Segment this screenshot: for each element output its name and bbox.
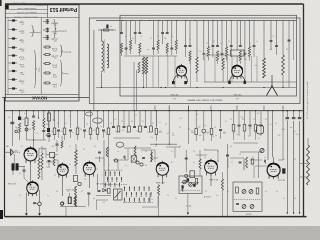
- switch contact 1: [105, 172, 107, 175]
- svg-text:47: 47: [121, 121, 123, 123]
- legend left row 6 symbol: [12, 62, 15, 64]
- legend right row 8 resistor symbol: [45, 82, 49, 84]
- tuner drop 7 tail: [157, 50, 159, 54]
- legend left row 9 symbol: [12, 87, 15, 89]
- svg-text:1n: 1n: [47, 195, 49, 197]
- capacitor C14: [48, 136, 51, 137]
- legend left row 7 lead b: [15, 70, 17, 72]
- tuner long vertical 4: [174, 56, 176, 88]
- tuner drop x276: [276, 21, 278, 46]
- antenna coil secondary L2: [107, 44, 109, 68]
- svg-text:PM 1.80: PM 1.80: [171, 95, 180, 97]
- svg-text:4p: 4p: [125, 36, 127, 38]
- legend right row 8 lead: [43, 82, 45, 84]
- tuner lower bus junction 2: [143, 87, 144, 88]
- svg-text:10k: 10k: [188, 129, 191, 131]
- tuner bus node 3: [141, 20, 142, 21]
- svg-text:47: 47: [139, 202, 141, 204]
- left drop 6 lower: [43, 128, 45, 131]
- module b trimmer 3: [242, 205, 246, 209]
- svg-text:a1: a1: [110, 26, 112, 28]
- svg-text:a12: a12: [90, 138, 93, 140]
- center res 3: [139, 126, 142, 132]
- center res 4: [150, 126, 153, 132]
- tuner drop 13: [189, 21, 191, 46]
- tuner resistor left of coil: [138, 62, 140, 73]
- tuner bus node 14: [240, 20, 241, 21]
- tuner drop 11: [175, 21, 177, 41]
- IF drop 6 lower: [211, 135, 213, 142]
- agc rail long: [46, 161, 54, 163]
- svg-text:10k: 10k: [98, 123, 101, 125]
- IF resistor 4: [195, 129, 198, 135]
- tuner drop 21 resistor: [239, 51, 241, 61]
- drop v1: [45, 148, 47, 158]
- tuner lower bus junction 1: [101, 87, 102, 88]
- tuner long resistor R8: [222, 58, 224, 70]
- tuner-to-main connector 5: [236, 106, 238, 111]
- switch contact 14 dot: [129, 190, 130, 191]
- legend right row 7 lead: [43, 72, 45, 74]
- svg-text:25p: 25p: [61, 131, 64, 133]
- right link b: [240, 151, 262, 153]
- tuner drop 20 tail: [230, 47, 232, 57]
- center boost cap 3: [142, 158, 145, 159]
- V6 lower lead: [88, 194, 90, 206]
- svg-text:25: 25: [193, 151, 195, 153]
- tuner resistor R9: [282, 55, 285, 75]
- lamp side lead: [34, 203, 38, 205]
- center circle b: [140, 163, 143, 166]
- Ra top lead: [38, 148, 40, 158]
- center cap 2: [123, 127, 126, 128]
- svg-text:47k: 47k: [29, 129, 32, 131]
- svg-text:mica: mica: [21, 73, 25, 75]
- svg-text:47k: 47k: [198, 127, 201, 129]
- bus junction 6: [48, 110, 49, 111]
- svg-text:25: 25: [265, 191, 267, 193]
- svg-text:50p: 50p: [255, 65, 258, 67]
- sheet left border: [4, 97, 6, 216]
- right resistor 1: [232, 125, 235, 132]
- svg-text:5p: 5p: [115, 131, 117, 133]
- lamp capacitor: [33, 202, 36, 203]
- svg-text:1n: 1n: [72, 132, 74, 134]
- filter capacitor 3: [298, 118, 302, 119]
- tuner drop x271: [270, 21, 272, 41]
- rail k: [142, 206, 158, 208]
- bus junction 15: [103, 110, 104, 111]
- right drop 6 lower: [260, 126, 262, 136]
- legend left row 2 lead: [9, 29, 13, 31]
- center drop 7: [145, 111, 147, 126]
- right capacitor 2: [238, 125, 241, 126]
- svg-text:1n: 1n: [151, 199, 153, 201]
- svg-text:1n: 1n: [125, 165, 127, 167]
- bus junction 27: [233, 110, 234, 111]
- tuner drop 10 capacitor: [170, 48, 173, 49]
- legend left row 8 symbol: [12, 78, 15, 80]
- tuner bus node 2: [132, 20, 133, 21]
- sheet right border: [303, 4, 305, 217]
- svg-text:47: 47: [302, 121, 304, 123]
- tuner-to-main connector 7: [282, 106, 284, 111]
- driver tube V5 (ECH 81): [57, 163, 68, 179]
- svg-text:47nF: 47nF: [18, 63, 23, 65]
- filter line 1 bus node: [287, 110, 288, 111]
- pilot lamp LP1: [38, 202, 42, 206]
- svg-text:25: 25: [302, 191, 304, 193]
- module b trimmer 4: [250, 205, 254, 209]
- svg-text:1n: 1n: [140, 36, 142, 38]
- IF drop 3: [188, 111, 190, 128]
- cluster resistor C: [75, 197, 77, 207]
- legend left row 5 lead b: [15, 55, 17, 57]
- osc transformer bottom lead a: [143, 74, 145, 88]
- tuner drop 16 tail: [212, 47, 214, 57]
- legend left row 8 lead: [9, 79, 13, 81]
- IF drop 5 lower: [203, 133, 205, 141]
- cluster trimmer A: [61, 202, 64, 205]
- svg-text:2,2 M: 2,2 M: [52, 47, 57, 49]
- V9 area cap 2: [265, 160, 266, 164]
- right capacitor 4: [249, 125, 252, 126]
- module a resistor: [195, 179, 197, 185]
- svg-text:50: 50: [179, 127, 181, 129]
- legend right row 4 resistor symbol: [45, 46, 49, 48]
- module b trimmer 1: [242, 190, 246, 194]
- detector rail: [113, 159, 128, 161]
- tuner right capacitor: [288, 40, 291, 41]
- switch contact 14: [128, 187, 130, 190]
- bus junction 23: [188, 110, 189, 111]
- rail e: [166, 146, 180, 148]
- legend right brace top: [54, 19, 57, 38]
- svg-text:5n: 5n: [51, 131, 53, 133]
- left cluster wire b: [136, 70, 138, 111]
- V9 anode feed node: [282, 110, 283, 111]
- mid drop 4: [64, 111, 66, 128]
- IF drop 4 lower: [195, 135, 197, 142]
- mid drop 11: [108, 111, 110, 128]
- tuner drop 15: [207, 21, 209, 47]
- C16 lower: [56, 145, 58, 152]
- terminal mid stem: [187, 194, 189, 213]
- output transformer lead: [19, 166, 25, 168]
- mid drop 6 lower: [77, 135, 79, 141]
- rail h: [250, 159, 262, 161]
- legend right row 5 dot: [50, 54, 51, 55]
- module b trimmer 3 arrow: [242, 205, 245, 208]
- left drop 5 node: [38, 117, 39, 118]
- bus junction 24: [196, 110, 197, 111]
- svg-text:Divers: Divers: [63, 72, 68, 75]
- center cap 1: [112, 127, 115, 128]
- tuner drop 14: [203, 21, 205, 53]
- left drop 3 lower: [26, 126, 28, 141]
- svg-text:10nF: 10nF: [18, 88, 23, 90]
- module a trimmer 1 arrow: [183, 180, 186, 183]
- svg-text:1n: 1n: [258, 138, 260, 140]
- svg-text:50: 50: [131, 121, 133, 123]
- V7-V8 resistor: [199, 159, 201, 169]
- tuner resistor right of V1: [196, 57, 198, 73]
- legend left row 4 symbol: [12, 46, 15, 48]
- V8 right wire: [227, 144, 229, 217]
- center cap 4: [144, 127, 147, 128]
- V7-V8 resistor bottom: [199, 169, 201, 176]
- IF can lead up: [236, 21, 238, 51]
- tuner lower bus junction 7: [263, 87, 264, 88]
- switch contact 21: [135, 192, 137, 195]
- svg-text:MF 455: MF 455: [50, 21, 58, 23]
- resistor R16: [61, 141, 63, 148]
- driver tube V6 (EF 85): [83, 161, 95, 178]
- switch contact 19 dot: [126, 196, 127, 197]
- svg-text:2n: 2n: [189, 39, 191, 41]
- svg-text:5n: 5n: [114, 119, 116, 121]
- switch contact 13: [124, 187, 126, 190]
- dropper link b: [300, 176, 308, 178]
- svg-text:50: 50: [45, 135, 47, 137]
- svg-text:5n: 5n: [24, 113, 26, 115]
- legend left row 5 symbol: [12, 54, 15, 56]
- module a trimmer 1: [183, 180, 187, 184]
- Rb top lead: [41, 146, 43, 153]
- switch contact 27: [133, 198, 135, 201]
- tuner tube V1 (EBF 80): [176, 64, 186, 79]
- tuner V1 socket foot right: [185, 75, 187, 83]
- V7 cathode lead: [161, 175, 163, 184]
- module b trimmer 2: [249, 190, 253, 194]
- antenna coil top lead: [101, 30, 103, 41]
- drop v12: [149, 193, 151, 203]
- mid drop 11 lower: [108, 135, 110, 141]
- svg-text:1n: 1n: [93, 198, 95, 200]
- mid drop 9 lower: [97, 135, 99, 141]
- trimmer below L10: [78, 182, 81, 185]
- legend left row 3 symbol: [12, 37, 15, 39]
- V8 right res top: [221, 172, 223, 179]
- legend left row 7 symbol: [12, 70, 15, 72]
- center boost resistor 1: [106, 147, 108, 157]
- grid link V5: [54, 159, 58, 161]
- right oval component: [257, 125, 264, 134]
- tuner drop 5 tail: [139, 53, 141, 56]
- tuner drop 22 capacitor: [244, 53, 247, 54]
- output transformer core a: [12, 163, 15, 170]
- IF drop 1: [155, 111, 157, 128]
- filter line 2 bus node: [293, 110, 294, 111]
- resistor box R12: [25, 118, 28, 126]
- svg-text:25: 25: [86, 124, 88, 126]
- right trimmer arrow: [260, 149, 264, 153]
- switch contact 8 dot: [121, 181, 122, 182]
- right drop 3 lower: [244, 131, 246, 140]
- svg-text:1n: 1n: [171, 151, 173, 153]
- tuner drop 18 capacitor: [221, 53, 224, 54]
- switch contact 11 dot: [114, 186, 115, 187]
- bus junction 16: [108, 110, 109, 111]
- drop v5: [127, 150, 129, 160]
- switch contact 16 dot: [139, 190, 140, 191]
- IF capacitor 7: [219, 130, 222, 131]
- IF up-cross wire a: [168, 106, 170, 111]
- sheet bottom border / ground bus: [5, 216, 307, 218]
- drop v8: [217, 150, 219, 162]
- mid drop 7: [84, 111, 86, 128]
- V7-V8 trimmer: [185, 174, 188, 177]
- switch contact 10 dot: [110, 186, 111, 187]
- svg-text:2x470: 2x470: [18, 29, 24, 31]
- tuner drop 8 tail: [162, 34, 164, 44]
- V7-V8 resistor top: [199, 150, 201, 159]
- tuner bus node 11: [213, 20, 214, 21]
- grid rail node: [33, 139, 34, 140]
- svg-text:25: 25: [150, 38, 152, 40]
- svg-text:470pF: 470pF: [18, 47, 24, 49]
- legend header row line 2: [5, 12, 47, 14]
- filter line 1: [286, 121, 288, 213]
- tuner drop 1 tail: [121, 53, 123, 56]
- tuner R8 low lead: [222, 70, 224, 82]
- switch contact 19: [126, 192, 128, 195]
- IF can lead down: [236, 56, 238, 63]
- svg-text:25: 25: [223, 133, 225, 135]
- resistor tall Rb: [41, 153, 43, 170]
- svg-text:a50: a50: [198, 135, 201, 137]
- svg-text:50: 50: [80, 129, 82, 131]
- potentiometer box P2: [114, 189, 123, 200]
- svg-text:50: 50: [83, 149, 85, 151]
- legend right row 6 dot: [50, 63, 51, 64]
- tuner drop 14 tail: [203, 54, 205, 60]
- svg-text:1n: 1n: [283, 198, 285, 200]
- below L10 tail: [75, 196, 77, 207]
- resistor R11: [19, 123, 21, 133]
- legend right brace bottom: [60, 45, 63, 57]
- legend left brace top: [32, 26, 35, 37]
- tuner drop 4 capacitor: [134, 33, 137, 34]
- svg-text:220: 220: [32, 124, 35, 126]
- bus junction 3: [26, 110, 27, 111]
- left trimmer small b: [15, 130, 18, 133]
- IF up-cross wire b: [188, 106, 190, 111]
- switch contact 9: [105, 183, 107, 186]
- electrolytic C11 blob: [18, 117, 21, 121]
- svg-text:25p: 25p: [151, 137, 154, 139]
- switch contact 20: [130, 192, 132, 195]
- right drop 5 lower: [255, 131, 257, 140]
- legend right row 7 resistor symbol: [45, 72, 49, 74]
- mid drop 2 lower: [54, 135, 56, 141]
- svg-text:25: 25: [145, 151, 147, 153]
- legend right row 1 coil symbol: [46, 19, 50, 24]
- svg-text:2x50: 2x50: [281, 129, 285, 131]
- tuner drop 10: [171, 21, 173, 48]
- IF drop 5: [203, 111, 205, 128]
- switch contact 21 dot: [136, 196, 137, 197]
- svg-text:1n: 1n: [193, 162, 195, 164]
- right drop 2: [238, 111, 240, 124]
- bus junction 29: [255, 110, 256, 111]
- svg-text:25: 25: [275, 123, 277, 125]
- switch contact 15 dot: [134, 190, 135, 191]
- tuner drop 13 resistor: [189, 51, 191, 61]
- center drop 3: [123, 111, 125, 126]
- tuner-to-main connector 2: [168, 106, 170, 111]
- IF tube V7 (EBF 80): [156, 161, 168, 178]
- center boost wire: [99, 156, 101, 162]
- tuner drop 1: [121, 21, 123, 33]
- bus junction 11: [77, 110, 78, 111]
- svg-text:1n: 1n: [236, 134, 238, 136]
- tuner drop 16 capacitor: [212, 46, 215, 47]
- left drop 8: [53, 111, 55, 120]
- svg-text:NOVAK: NOVAK: [31, 96, 47, 101]
- tuner drop 21 tail: [239, 61, 241, 64]
- svg-text:50u: 50u: [290, 127, 293, 129]
- switch contact 20 dot: [131, 196, 132, 197]
- V7 cath res lower: [158, 195, 160, 217]
- tuner drop 5: [139, 21, 141, 33]
- mid drop 6: [77, 111, 79, 128]
- link rail to bus: [65, 207, 67, 217]
- C15 upper lead: [23, 167, 25, 171]
- resistor box R15: [48, 113, 51, 121]
- tuner drop 14 capacitor: [202, 53, 205, 54]
- switch rail c: [123, 202, 153, 204]
- V9 area resistor 1: [246, 157, 248, 168]
- tuner-to-main connector 6: [263, 106, 265, 111]
- tuner drop 9 tail: [166, 53, 168, 56]
- filter line 2 bottom node: [293, 212, 294, 213]
- tuner lower bus junction 6: [223, 87, 224, 88]
- svg-text:1n: 1n: [100, 126, 102, 128]
- tuner-to-main connector 1: [154, 106, 156, 111]
- loudspeaker lead right: [14, 151, 21, 153]
- V7 left resistor: [151, 152, 153, 162]
- rail j: [96, 199, 108, 201]
- svg-text:10k: 10k: [278, 135, 281, 137]
- svg-text:50: 50: [19, 173, 21, 175]
- legend right row 6 resistor symbol: [45, 63, 49, 65]
- V7-V8 box: [190, 171, 195, 178]
- tuner drop 22: [244, 21, 246, 53]
- V9 area wire: [258, 152, 260, 178]
- tuner bus node 8: [186, 20, 187, 21]
- tuner drop 19 resistor: [226, 47, 228, 57]
- svg-text:1n: 1n: [252, 165, 254, 167]
- bus junction 7: [54, 110, 55, 111]
- tuner drop 17 capacitor: [216, 46, 219, 47]
- tuner lower bus junction 3: [160, 87, 161, 88]
- svg-text:25: 25: [125, 202, 127, 204]
- drop v3: [103, 158, 105, 166]
- tuner lower bus junction 8: [282, 87, 283, 88]
- svg-text:50: 50: [171, 36, 173, 38]
- tuner drop 12: [185, 21, 187, 46]
- antenna coil primary L1: [102, 41, 104, 71]
- center drop 2: [118, 111, 120, 126]
- V6 cathode lead: [88, 175, 90, 188]
- svg-text:47: 47: [142, 121, 144, 123]
- left drop 6 tail: [43, 132, 45, 140]
- anode link wire a: [39, 147, 46, 149]
- center boost cap 2: [124, 156, 125, 160]
- V8 grid rail: [196, 154, 207, 156]
- tuner drop 19 tail: [226, 57, 228, 61]
